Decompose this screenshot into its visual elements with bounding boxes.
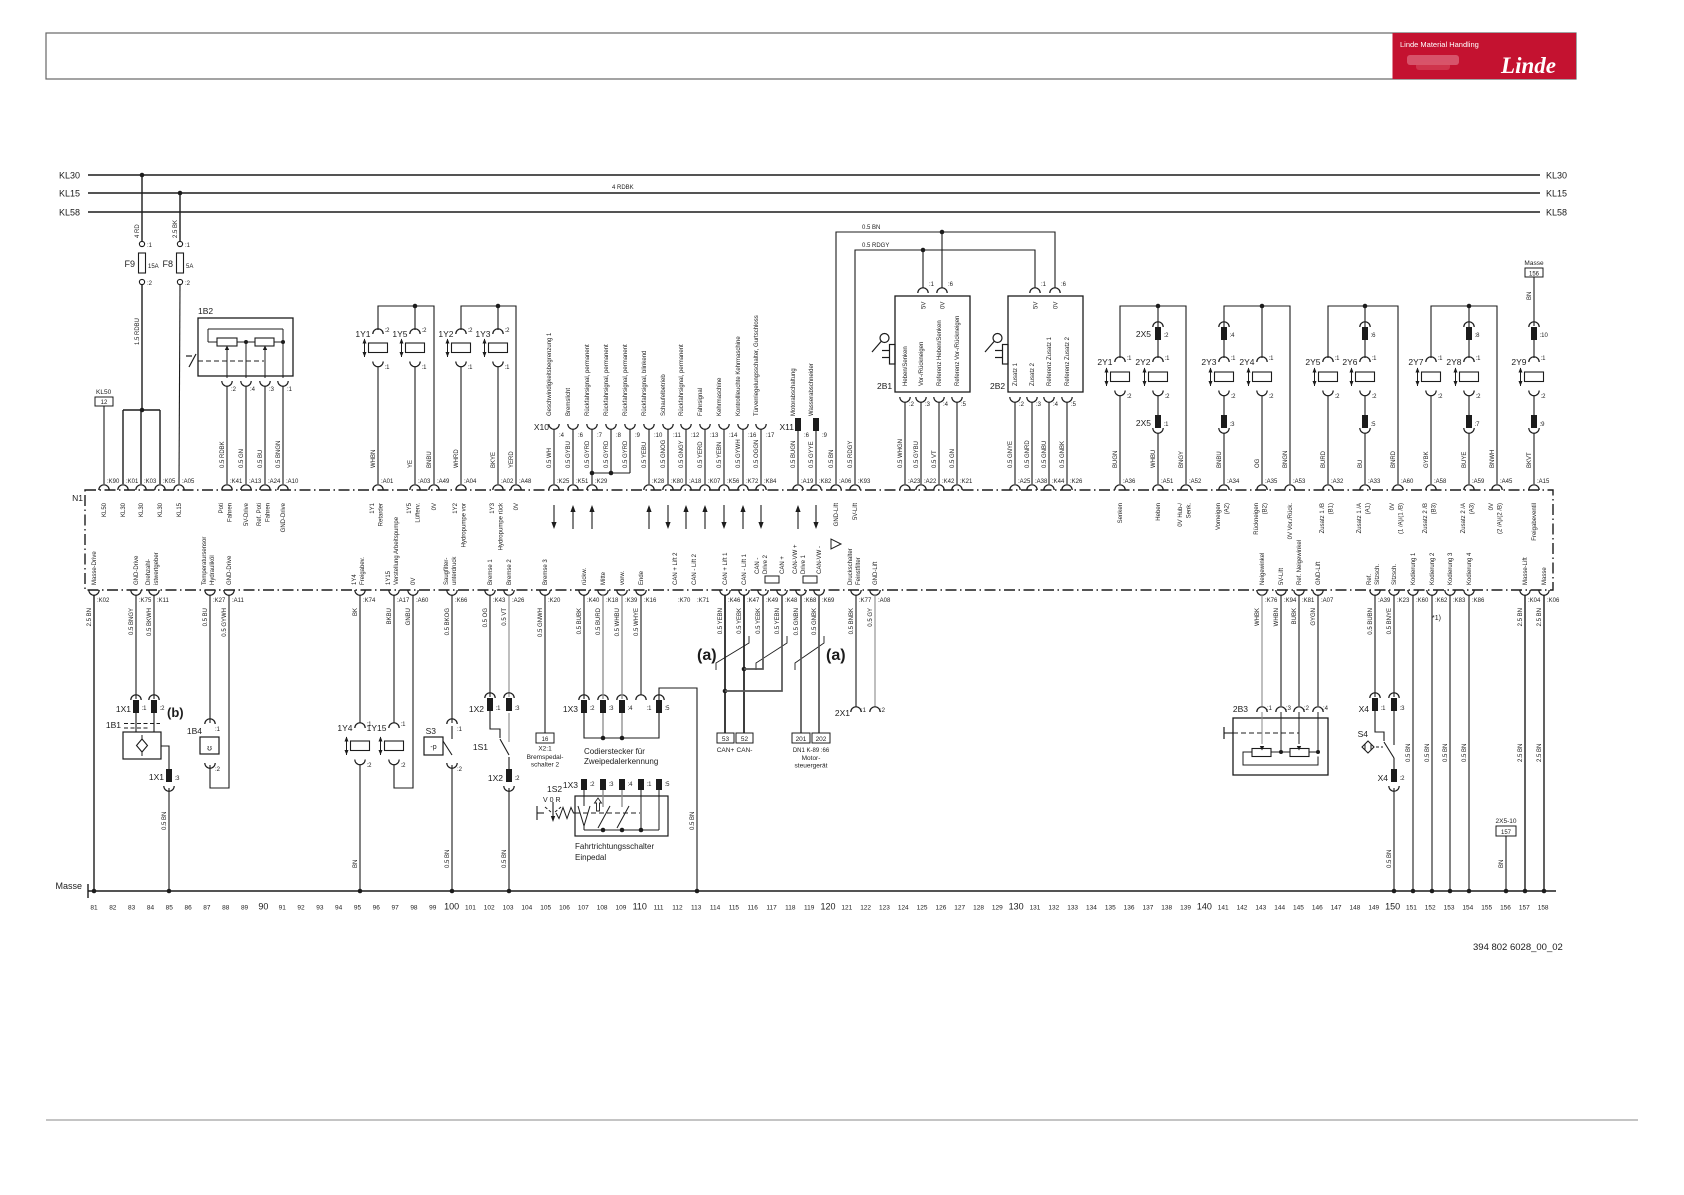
N1 top pin :K03: [136, 485, 146, 490]
svg-text:0.5 GNBN: 0.5 GNBN: [794, 608, 800, 635]
svg-text::6: :6: [948, 282, 954, 288]
svg-text:106: 106: [559, 905, 570, 912]
svg-text:86: 86: [184, 905, 192, 912]
svg-text::A08: :A08: [878, 598, 891, 604]
N1 bottom pin :A17: [389, 590, 399, 595]
svg-text::K28: :K28: [652, 479, 665, 485]
svg-text::2: :2: [1231, 394, 1237, 400]
N1 top pin :A18: [681, 485, 691, 490]
svg-text::1: :1: [1231, 356, 1237, 362]
svg-text:0V: 0V: [514, 503, 520, 510]
svg-text::A52: :A52: [1189, 479, 1202, 485]
twist mark 3: [795, 636, 824, 670]
svg-text::2: :2: [147, 281, 153, 287]
wire 1Y15 to N1 pin A60: [394, 595, 413, 788]
svg-text:137: 137: [1142, 905, 1153, 912]
svg-text:5V-Lift: 5V-Lift: [1279, 568, 1285, 585]
terminal 52 CAN-: [736, 733, 753, 743]
svg-text:X4: X4: [1378, 773, 1389, 783]
N1 top pin :A25: [1010, 485, 1020, 490]
svg-text:0.5 BN: 0.5 BN: [1387, 850, 1393, 868]
svg-text::A33: :A33: [1368, 479, 1381, 485]
wire K04 to Masse: [1524, 595, 1526, 891]
svg-text:158: 158: [1538, 905, 1549, 912]
svg-text:0V Vor./Rück.: 0V Vor./Rück.: [1288, 503, 1294, 540]
svg-text:Zusatz 1: Zusatz 1: [1013, 362, 1019, 386]
wire 15 RDBU F9 to branch: [141, 285, 143, 411]
svg-text:Masse-Drive: Masse-Drive: [92, 551, 98, 585]
svg-text:151: 151: [1406, 905, 1417, 912]
connector X10 pin :17: [756, 424, 766, 429]
svg-text:153: 153: [1444, 905, 1455, 912]
svg-text:0V: 0V: [432, 503, 438, 510]
signal arrow at x=649: [648, 507, 650, 529]
svg-text::A38: :A38: [1035, 479, 1048, 485]
svg-text:0.5 RDGY: 0.5 RDGY: [862, 243, 889, 249]
svg-text::6: :6: [578, 433, 584, 439]
svg-text:0V: 0V: [1054, 302, 1060, 309]
N1 bottom pin :A26: [504, 590, 514, 595]
connector X10 pin :7: [587, 424, 597, 429]
svg-text::14: :14: [729, 433, 738, 439]
svg-text:Zweipedalerkennung: Zweipedalerkennung: [584, 757, 658, 766]
wire K48 CAN+ Drive2: [725, 595, 782, 691]
svg-text::3: :3: [1400, 706, 1406, 712]
svg-text:2Y3: 2Y3: [1201, 357, 1216, 367]
svg-text::5: :5: [961, 402, 967, 408]
svg-text:CAN - Lift 2: CAN - Lift 2: [692, 553, 698, 585]
svg-text::4: :4: [628, 782, 634, 788]
N1 top pin :A51: [1153, 485, 1163, 490]
svg-text:0.5 WHYE: 0.5 WHYE: [634, 608, 640, 636]
svg-text:1Y4: 1Y4: [352, 574, 358, 585]
svg-text::7: :7: [597, 433, 603, 439]
N1 bottom pin :K69: [814, 590, 824, 595]
svg-text:1S2: 1S2: [547, 784, 562, 794]
svg-text:WHRD: WHRD: [454, 449, 460, 468]
svg-text:100: 100: [444, 902, 459, 912]
svg-text:0.5 BN: 0.5 BN: [502, 850, 508, 868]
svg-text:2Y5: 2Y5: [1305, 357, 1320, 367]
svg-text:unterdruck: unterdruck: [452, 556, 458, 585]
svg-text::K93: :K93: [858, 479, 871, 485]
svg-text::16: :16: [748, 433, 757, 439]
svg-text::10: :10: [654, 433, 663, 439]
svg-text::K23: :K23: [1397, 598, 1410, 604]
svg-text::1: :1: [1541, 356, 1547, 362]
svg-text:1.5 RDBU: 1.5 RDBU: [135, 318, 141, 345]
svg-text::A13: :A13: [249, 479, 262, 485]
svg-text::10: :10: [1540, 333, 1549, 339]
svg-text:BNBU: BNBU: [1217, 451, 1223, 468]
svg-text::2: :2: [1438, 394, 1444, 400]
N1 bottom pin :K16: [636, 590, 646, 595]
svg-text:0.5 WHBU: 0.5 WHBU: [615, 608, 621, 636]
svg-text::1: :1: [1165, 356, 1171, 362]
svg-text:0.5 GNWH: 0.5 GNWH: [538, 608, 544, 637]
connector pins 1B2 :2 :4 :3 :1: [226, 376, 228, 378]
svg-text::1: :1: [1041, 282, 1047, 288]
svg-text:0.5 OGGN: 0.5 OGGN: [754, 440, 760, 468]
svg-text::K81: :K81: [1302, 598, 1315, 604]
svg-text::K84: :K84: [764, 479, 777, 485]
svg-text:12: 12: [101, 400, 108, 406]
svg-text:16: 16: [542, 737, 549, 743]
svg-text::4: :4: [1323, 706, 1329, 712]
svg-text:WHBN: WHBN: [371, 450, 377, 468]
N1 top pin :A48: [511, 485, 521, 490]
svg-text:2X5-10: 2X5-10: [1496, 818, 1517, 825]
svg-text::3: :3: [1036, 402, 1042, 408]
svg-text::A05: :A05: [182, 479, 195, 485]
svg-text:0.5 GNBU: 0.5 GNBU: [1042, 441, 1048, 468]
N1 bottom pin :K77: [851, 590, 861, 595]
svg-text:CAN-VW +: CAN-VW +: [793, 544, 799, 574]
svg-text:Freigabeventil: Freigabeventil: [1532, 503, 1538, 541]
svg-text:111: 111: [654, 905, 664, 912]
N1 top pin :A35: [1257, 485, 1267, 490]
svg-text:0.5 BNYE: 0.5 BNYE: [1387, 608, 1393, 634]
svg-text::3: :3: [269, 387, 275, 393]
svg-text:KL30: KL30: [1546, 171, 1567, 181]
svg-text:52: 52: [741, 736, 749, 743]
valve 2Y9 with connector pins :10 :9: [1529, 322, 1539, 327]
svg-text::17: :17: [766, 433, 775, 439]
svg-text::K44: :K44: [1052, 479, 1065, 485]
valve 2Y1 / valve 2Y2 group with connector 2X5: [1120, 306, 1186, 484]
wire A39 to X4:1: [1374, 595, 1376, 697]
signal arrow at x=798: [797, 507, 799, 529]
svg-text::K72: :K72: [746, 479, 759, 485]
node junction KL15/F8: [178, 191, 183, 196]
wire K39 to 1X3:4: [621, 595, 623, 699]
svg-text:156: 156: [1500, 905, 1511, 912]
wire K81 to 2B3:2: [1298, 595, 1300, 706]
svg-text::K02: :K02: [97, 598, 110, 604]
svg-text::K06: :K06: [1547, 598, 1560, 604]
svg-text::1: :1: [468, 365, 474, 371]
N1 top pin :A34: [1219, 485, 1229, 490]
svg-text:0.5 RDBK: 0.5 RDBK: [220, 441, 226, 468]
svg-text:2B2: 2B2: [990, 381, 1005, 391]
svg-text:Ref.: Ref.: [1367, 574, 1373, 585]
svg-text:0.5 BNBK: 0.5 BNBK: [849, 608, 855, 634]
N1 top pin :A32: [1323, 485, 1333, 490]
svg-text:Fahren: Fahren: [228, 503, 234, 522]
svg-text:0.5 YEBN: 0.5 YEBN: [718, 608, 724, 634]
svg-text:2B3: 2B3: [1233, 704, 1248, 714]
svg-text::4: :4: [1053, 402, 1059, 408]
svg-text:101: 101: [465, 905, 476, 912]
svg-text:0.5 BN: 0.5 BN: [862, 225, 880, 231]
svg-text::A53: :A53: [1293, 479, 1306, 485]
svg-text::2: :2: [909, 402, 915, 408]
svg-text::K21: :K21: [960, 479, 973, 485]
wire F8 feed: [179, 193, 181, 242]
signal arrow at x=761: [760, 505, 762, 527]
svg-text::A11: :A11: [232, 598, 245, 604]
svg-text::1: :1: [215, 727, 221, 733]
svg-text:15A: 15A: [148, 264, 159, 270]
svg-text:Senken: Senken: [1118, 503, 1124, 523]
svg-text:84: 84: [147, 905, 155, 912]
wire K49 CAN- Drive2: [744, 595, 763, 669]
svg-text::K76: :K76: [1265, 598, 1278, 604]
svg-text:Drive 2: Drive 2: [763, 554, 769, 574]
svg-text:Poti: Poti: [219, 503, 225, 513]
svg-text:(B1): (B1): [1329, 503, 1335, 514]
svg-text:Kodierung 3: Kodierung 3: [1448, 552, 1454, 585]
svg-text:148: 148: [1350, 905, 1361, 912]
svg-text:85: 85: [166, 905, 174, 912]
wire F8 to N1 pin A05: [179, 285, 180, 485]
svg-text:YE: YE: [408, 460, 414, 468]
svg-text:GNBU: GNBU: [406, 608, 412, 625]
N1 top pin :A13: [241, 485, 251, 490]
svg-text:147: 147: [1331, 905, 1342, 912]
svg-text::2: :2: [880, 708, 886, 714]
terminal 201: [792, 733, 810, 743]
twist mark 2: [756, 636, 787, 670]
svg-text::1: :1: [861, 708, 867, 714]
svg-text::1: :1: [929, 282, 935, 288]
N1 bottom pin :K68: [796, 590, 806, 595]
svg-text::1: :1: [647, 782, 653, 788]
svg-text:CAN - Lift 1: CAN - Lift 1: [742, 553, 748, 585]
svg-text:145: 145: [1293, 905, 1304, 912]
svg-text:102: 102: [484, 905, 495, 912]
svg-text:BK: BK: [353, 608, 359, 616]
svg-text:Lüfterv.: Lüfterv.: [416, 503, 422, 523]
svg-text:2.5 BN: 2.5 BN: [1537, 608, 1543, 626]
connector X10 pin :11: [663, 424, 673, 429]
svg-text:(B2): (B2): [1263, 503, 1269, 514]
svg-text:1Y5: 1Y5: [392, 329, 407, 339]
N1 top pin :K26: [1062, 485, 1072, 490]
N1 bottom pin :A11: [224, 590, 234, 595]
svg-text:2B1: 2B1: [877, 381, 892, 391]
svg-text::A49: :A49: [437, 479, 450, 485]
wire 0.5 BN supply: [836, 232, 1055, 484]
svg-text:127: 127: [954, 905, 965, 912]
svg-text:Drive 1: Drive 1: [801, 554, 807, 574]
svg-text::K04: :K04: [1528, 598, 1541, 604]
svg-text:156: 156: [1529, 272, 1540, 278]
connector X10 pin :12: [681, 424, 691, 429]
svg-text:98: 98: [410, 905, 418, 912]
svg-text:KL15: KL15: [59, 189, 80, 199]
svg-text::1: :1: [385, 365, 391, 371]
N1 top pin :K56: [719, 485, 729, 490]
svg-text::K48: :K48: [785, 598, 798, 604]
svg-text:0.5 GYBU: 0.5 GYBU: [566, 441, 572, 468]
N1 bottom pin :A08: [870, 590, 880, 595]
svg-text:schalter 2: schalter 2: [531, 762, 560, 769]
svg-text::8: :8: [1475, 333, 1481, 339]
svg-text:*1): *1): [1432, 615, 1441, 622]
svg-text:0.5 YEBN: 0.5 YEBN: [717, 442, 723, 468]
svg-text::A59: :A59: [1472, 479, 1485, 485]
svg-text:Sitzsch.: Sitzsch.: [1392, 564, 1398, 585]
svg-text:Rückfahrsignal, permanent: Rückfahrsignal, permanent: [679, 344, 685, 416]
svg-text::2: :2: [367, 763, 373, 769]
svg-text:GND-Lift: GND-Lift: [1316, 561, 1322, 585]
svg-text::1: :1: [142, 706, 148, 712]
svg-text:1Y15: 1Y15: [367, 723, 387, 733]
signal arrow at x=554: [553, 505, 555, 527]
svg-text:130: 130: [1009, 902, 1024, 912]
svg-text:2X1: 2X1: [835, 708, 850, 718]
wire K20 to terminal 16: [544, 595, 546, 733]
svg-text:Vor-/Rückneigen: Vor-/Rückneigen: [919, 342, 925, 386]
svg-text:0.5 YEBK: 0.5 YEBK: [737, 608, 743, 634]
svg-text:0.5 BUBN: 0.5 BUBN: [1368, 608, 1374, 635]
signal arrow at x=592: [591, 507, 593, 529]
svg-text:Zusatz 2 /A: Zusatz 2 /A: [1461, 503, 1467, 533]
svg-text:F9: F9: [124, 259, 135, 269]
svg-text:CAN + Lift 2: CAN + Lift 2: [673, 552, 679, 585]
svg-text::A17: :A17: [397, 598, 410, 604]
svg-text:Senk.: Senk.: [1187, 503, 1193, 519]
svg-text:1Y2: 1Y2: [453, 502, 459, 513]
svg-text:BUGN: BUGN: [1113, 451, 1119, 468]
svg-text::K71: :K71: [697, 598, 710, 604]
svg-text:GND-Drive: GND-Drive: [227, 555, 233, 585]
KL30 branch bus: [123, 409, 160, 411]
svg-text::2: :2: [1164, 333, 1170, 339]
svg-text::K68: :K68: [804, 598, 817, 604]
svg-text:0.5 BKWH: 0.5 BKWH: [147, 608, 153, 636]
svg-text:Kodierung 2: Kodierung 2: [1430, 552, 1436, 585]
svg-text:2.5 BN: 2.5 BN: [1518, 744, 1524, 762]
svg-text::A26: :A26: [512, 598, 525, 604]
svg-text:0.5 GNYE: 0.5 GNYE: [1008, 441, 1014, 468]
svg-text::2: :2: [1400, 776, 1406, 782]
wire K86 to Masse: [1468, 595, 1470, 891]
svg-text:Referenz Heben/Senken: Referenz Heben/Senken: [937, 320, 943, 386]
svg-text:Referenz Zusatz 2: Referenz Zusatz 2: [1065, 336, 1071, 386]
svg-text::A01: :A01: [381, 479, 394, 485]
N1 top pin :K90: [99, 485, 109, 490]
svg-text::4: :4: [1230, 333, 1236, 339]
svg-text::K47: :K47: [747, 598, 760, 604]
svg-text::2: :2: [160, 706, 166, 712]
svg-text::K69: :K69: [822, 598, 835, 604]
svg-text:0.5 BNGN: 0.5 BNGN: [276, 441, 282, 468]
svg-text:119: 119: [804, 905, 815, 912]
svg-text::K42: :K42: [942, 479, 955, 485]
svg-text:0.5 YERD: 0.5 YERD: [698, 441, 704, 468]
svg-text:X11: X11: [780, 422, 795, 432]
wire K76 to 2B3:1: [1261, 595, 1263, 706]
svg-text:0.5 BN: 0.5 BN: [690, 812, 696, 830]
wire K47 CAN- Lift1: [743, 595, 745, 733]
svg-text::A04: :A04: [464, 479, 477, 485]
svg-text:93: 93: [316, 905, 324, 912]
svg-text:150: 150: [1385, 902, 1400, 912]
N1 bottom pin :K27: [205, 590, 215, 595]
svg-text:109: 109: [616, 905, 627, 912]
signal arrow at x=724: [723, 505, 725, 527]
svg-text:Fahren: Fahren: [266, 503, 272, 522]
svg-text:Ref. Neigewinkel: Ref. Neigewinkel: [1297, 540, 1303, 585]
svg-text:Einpedal: Einpedal: [575, 853, 606, 862]
wire K66 to S3: [451, 595, 453, 723]
svg-text:Retarder: Retarder: [379, 503, 385, 526]
svg-text:0.5 BN: 0.5 BN: [162, 812, 168, 830]
coding plug bridge wires: [584, 713, 659, 738]
N1 top pin :A53: [1285, 485, 1295, 490]
svg-text:0.5 BN: 0.5 BN: [1462, 744, 1468, 762]
svg-text:110: 110: [633, 902, 647, 912]
svg-text:96: 96: [373, 905, 381, 912]
N1 bottom pin :K46: [720, 590, 730, 595]
svg-text:122: 122: [860, 905, 871, 912]
svg-text:Motor-: Motor-: [802, 755, 821, 762]
svg-text:0.5 BN: 0.5 BN: [829, 450, 835, 468]
svg-text:(1 /A)/(1 /B): (1 /A)/(1 /B): [1399, 503, 1405, 534]
svg-text:2.5 BN: 2.5 BN: [1537, 744, 1543, 762]
N1 bottom pin :K86: [1464, 590, 1474, 595]
svg-text:Bremse 3: Bremse 3: [543, 559, 549, 585]
svg-text:S3: S3: [426, 726, 437, 736]
N1 top pin :A10: [278, 485, 288, 490]
N1 bottom pin :K48: [777, 590, 787, 595]
svg-text::A48: :A48: [519, 479, 532, 485]
N1 bottom pin :K94: [1276, 590, 1286, 595]
svg-text:BNGN: BNGN: [1283, 451, 1289, 468]
svg-text::2: :2: [1269, 394, 1275, 400]
N1 top pin :A02: [493, 485, 503, 490]
svg-text::1: :1: [1381, 706, 1387, 712]
svg-text:X4: X4: [1359, 704, 1370, 714]
svg-text:2X5: 2X5: [1136, 329, 1151, 339]
svg-text:rückw.: rückw.: [582, 568, 588, 585]
valve 1Y1 / valve 1Y5 group: [378, 306, 434, 484]
svg-text:Fahrtrichtungsschalter: Fahrtrichtungsschalter: [575, 842, 654, 851]
svg-text:0V: 0V: [941, 302, 947, 309]
svg-text:97: 97: [392, 905, 400, 912]
svg-text:5A: 5A: [186, 264, 193, 270]
svg-text::1: :1: [1164, 422, 1170, 428]
svg-text::7: :7: [1475, 422, 1481, 428]
ground rail junctions: [92, 889, 97, 894]
svg-text:(a): (a): [697, 647, 717, 664]
svg-text:Hydropumpe rück: Hydropumpe rück: [499, 502, 505, 550]
svg-text:Drehzahl-: Drehzahl-: [146, 559, 152, 585]
svg-text:144: 144: [1274, 905, 1285, 912]
svg-text::A51: :A51: [1161, 479, 1174, 485]
svg-text::A10: :A10: [286, 479, 299, 485]
svg-text:Linde: Linde: [1500, 53, 1556, 78]
svg-text::2: :2: [422, 328, 428, 334]
svg-text::K75: :K75: [139, 598, 152, 604]
svg-text:Rückfahrsignal, permanent: Rückfahrsignal, permanent: [604, 344, 610, 416]
svg-text:BNBU: BNBU: [427, 451, 433, 468]
N1 top pin :K80: [663, 485, 673, 490]
svg-text:0.5 GY: 0.5 GY: [868, 608, 874, 627]
svg-text:0.5 BNGY: 0.5 BNGY: [129, 608, 135, 635]
svg-text:Zusatz 1 /A: Zusatz 1 /A: [1357, 503, 1363, 533]
node junction KL30/F9: [140, 173, 145, 178]
svg-text:OG: OG: [1255, 458, 1261, 468]
svg-text:CAN +: CAN +: [780, 556, 786, 574]
svg-text::3: :3: [175, 776, 181, 782]
svg-text:94: 94: [335, 905, 343, 912]
svg-text:2Y1: 2Y1: [1097, 357, 1112, 367]
svg-text::A34: :A34: [1227, 479, 1240, 485]
svg-text:91: 91: [279, 905, 287, 912]
